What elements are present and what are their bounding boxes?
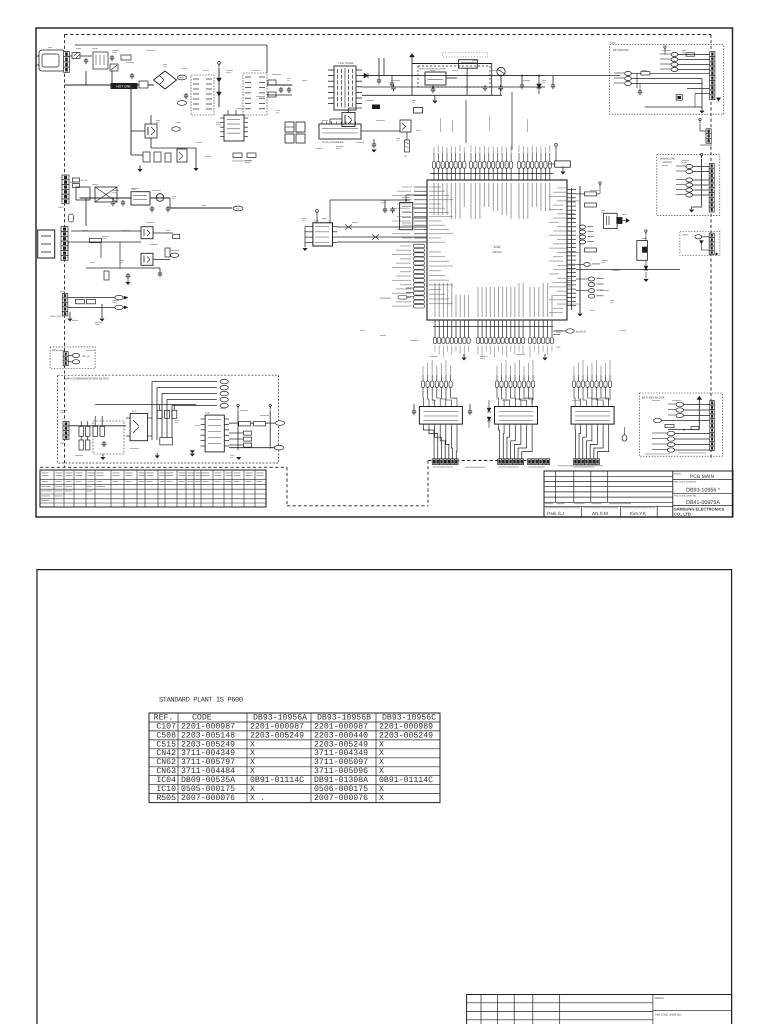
svg-text:BLOCK: BLOCK: [663, 161, 672, 164]
ground comm 4: [236, 457, 241, 460]
output connectors IC13: [574, 459, 578, 465]
svg-text:MODEL: MODEL: [674, 473, 683, 476]
opto-coupler PC101: [177, 149, 187, 162]
aux diode: [699, 241, 703, 245]
resistor R71: [585, 192, 597, 196]
wire secondary bus 2: [362, 86, 545, 88]
horizontal bus comm top: [95, 404, 196, 406]
line filter LF101: [93, 52, 108, 69]
transistor Q05: [156, 194, 164, 202]
svg-text:PBA CODE (DWG No): PBA CODE (DWG No): [674, 481, 696, 484]
download block dashed border: [657, 155, 720, 216]
resistor R42: [86, 426, 90, 436]
ground CN31 b: [99, 319, 104, 322]
svg-text:X: X: [379, 758, 384, 767]
vcc CN03: [699, 121, 701, 124]
sw ovals lower: [667, 431, 675, 435]
IC01 left pin labels inside: [429, 186, 441, 189]
IC01 right rail: [579, 186, 581, 313]
SMPS controller IC104: [319, 124, 361, 139]
ground comm 5: [190, 454, 195, 457]
buzzer oval: [553, 330, 566, 332]
output connectors IC11: [432, 459, 436, 465]
connector CN101 pins: [64, 52, 70, 57]
wire comm out: [229, 422, 239, 424]
relay box K101: [414, 108, 423, 114]
output cap C23: [151, 206, 153, 208]
sub power bottom rail: [362, 94, 502, 96]
output oval CTS: [220, 391, 228, 395]
revision history table: [40, 470, 266, 507]
svg-text:DB93-10956A: DB93-10956A: [253, 713, 307, 722]
filter cap C202: [391, 81, 393, 83]
svg-text:X: X: [250, 749, 255, 758]
wires IC11 outputs: [423, 427, 434, 460]
aux oval: [695, 235, 702, 239]
wires switch section: [68, 241, 141, 243]
ground symbol power: [139, 165, 141, 169]
varistor VA101: [110, 64, 118, 71]
capacitor C101: [85, 58, 87, 60]
svg-text:X: X: [250, 767, 255, 776]
resistor R25: [165, 248, 170, 257]
wire to key block: [545, 75, 620, 77]
svg-text:CODE: CODE: [192, 713, 212, 722]
vcc reset: [645, 232, 647, 235]
regulator IC103: [459, 60, 478, 68]
resistor R72: [585, 203, 597, 207]
pad P22: [173, 234, 180, 238]
MIC block dashed box: [50, 347, 95, 369]
cap C204: [500, 85, 502, 87]
svg-text:OSC: OSC: [556, 346, 561, 349]
svg-text:IC04: IC04: [156, 776, 176, 785]
title block signature dividers: [581, 506, 583, 517]
label bar AC warning: [111, 83, 138, 89]
fuse F101: [70, 55, 93, 57]
resistor R49: [172, 410, 177, 418]
wires IC13 outputs: [574, 427, 576, 460]
title block left grid: [555, 471, 557, 502]
title block frame: [544, 471, 733, 517]
ground reset: [645, 272, 647, 279]
title block rev labels row: [544, 505, 673, 507]
node HOT label: [178, 75, 187, 80]
svg-text:T101 TRANS: T101 TRANS: [338, 62, 354, 65]
revision table header scribbles: [42, 472, 49, 475]
small cap C103: [131, 73, 133, 75]
vcc eeprom: [316, 212, 318, 215]
feedback resistors cluster: [143, 152, 150, 162]
crystal X01 circuit: [604, 213, 618, 228]
oval pad right 6: [588, 277, 594, 281]
wire 5V rail: [80, 197, 132, 199]
oval OUT2: [170, 253, 178, 257]
svg-text:CN63: CN63: [156, 767, 176, 776]
svg-text:2203-005249: 2203-005249: [181, 740, 235, 749]
node HOT(DANGER) label: [178, 101, 187, 106]
component designator labels confetti: [48, 46, 52, 49]
wires IC11 inputs to IC: [422, 395, 424, 404]
output connectors IC12: [498, 459, 502, 465]
input ovals IC13: [573, 375, 575, 382]
MOSFET Q102: [342, 113, 355, 127]
wire AC to rectifier: [65, 84, 150, 86]
resistor RA01: [686, 53, 695, 56]
revision table left entries: [41, 485, 51, 488]
wire drop 2 to fan: [465, 100, 467, 143]
wire comm bus fan: [152, 382, 217, 440]
capacitor C102: [111, 55, 113, 57]
IC01 bottom pin stubs and ovals: [434, 320, 436, 338]
ground key: [701, 107, 703, 110]
input ovals IC11: [422, 375, 424, 382]
vcc key: [664, 48, 666, 51]
IC01 top pin labels inside: [434, 183, 435, 215]
ground bottom fan a: [463, 354, 465, 357]
svg-text:IC S01 KA1M0880B: IC S01 KA1M0880B: [322, 141, 344, 144]
svg-text:5V_IN: 5V_IN: [81, 179, 87, 182]
opto coupler IC41: [130, 414, 148, 441]
ground bottom fan b: [544, 354, 546, 357]
connector CN03: [706, 129, 711, 134]
reset circuit IC08: [637, 241, 648, 261]
tiny note above title block: [558, 464, 603, 467]
resistor R46: [100, 426, 104, 436]
cap group1 left: [413, 409, 415, 411]
sw junction dots: [683, 429, 685, 431]
transistor Q01 key: [676, 95, 682, 101]
filter box FB21: [76, 187, 90, 200]
oval pad right 8: [588, 289, 594, 293]
svg-text:IC01: IC01: [494, 245, 501, 249]
wire reset top: [405, 195, 407, 203]
ground comm 1: [102, 454, 104, 457]
svg-text:Park.S.J: Park.S.J: [547, 511, 564, 516]
sw oval mid: [654, 418, 662, 422]
svg-text:X: X: [379, 749, 384, 758]
svg-text:TH: TH: [404, 155, 407, 158]
svg-text:CN62: CN62: [156, 758, 176, 767]
electrolytic cap C211: [296, 122, 305, 132]
diode pad oval A: [115, 295, 123, 299]
connector CN31: [62, 293, 68, 298]
MOSFET Q101: [145, 124, 157, 138]
switch FET Q06: [141, 227, 153, 239]
label secondary: [232, 160, 252, 163]
IC01 top bus: [430, 173, 553, 175]
svg-text:X: X: [379, 785, 384, 794]
wires CN31: [68, 297, 115, 299]
svg-text:2007-000076: 2007-000076: [181, 794, 235, 803]
diode pad oval B: [115, 305, 123, 309]
svg-text:PCB MAIN: PCB MAIN: [690, 474, 715, 480]
wire primary loop: [130, 85, 132, 155]
sw vertical rail: [698, 400, 700, 430]
oval right of group3 bundle: [622, 435, 627, 441]
driver IC IC12: [495, 407, 538, 425]
left resistor group3: [487, 408, 491, 412]
ground CN31 a: [67, 319, 72, 322]
capacitor C213: [373, 142, 375, 144]
cap C01 key: [639, 89, 641, 91]
svg-text:DB09-00535A: DB09-00535A: [181, 776, 235, 785]
wires IC12 outputs: [499, 427, 500, 460]
sw label R82: [691, 427, 699, 430]
output oval GND41: [220, 403, 228, 407]
output oval TXD: [220, 379, 228, 383]
resistor R45: [93, 426, 97, 436]
svg-text:2201-000987: 2201-000987: [181, 722, 235, 731]
inductor L102: [138, 84, 154, 86]
resistor R44: [86, 440, 90, 450]
svg-text:DB41-00975A: DB41-00975A: [686, 500, 720, 506]
svg-text:R505: R505: [156, 794, 176, 803]
svg-text:BUZZER: BUZZER: [576, 331, 586, 334]
svg-text:C508: C508: [156, 731, 176, 740]
resistor R101: [121, 55, 131, 60]
labels right pads 3: [597, 290, 604, 291]
svg-text:MIC: MIC: [52, 349, 57, 352]
cap C44 box: [160, 438, 173, 445]
wires into PWM IC: [227, 110, 229, 115]
pad P43: [244, 443, 252, 447]
output oval COM1: [275, 421, 284, 426]
ground Q07: [127, 279, 129, 282]
svg-text:DB91-01308A: DB91-01308A: [314, 776, 368, 785]
input cap C22: [122, 200, 124, 202]
connector CN22: [61, 227, 68, 232]
bridge rectifier D101: [154, 71, 177, 89]
key upper ovals: [671, 52, 678, 56]
aux dot: [715, 253, 717, 255]
wires IC12 inputs to IC: [497, 395, 499, 404]
svg-text:PBA CODE (DWG No): PBA CODE (DWG No): [655, 1014, 681, 1017]
vcc top fan: [555, 146, 557, 149]
svg-text:X .: X .: [250, 794, 265, 803]
driver IC IC13: [571, 407, 614, 425]
ground comm 2: [156, 453, 158, 455]
oval KA label: [172, 127, 180, 131]
secondary rectifier pin array: [243, 73, 267, 115]
svg-text:X: X: [250, 758, 255, 767]
output oval 5V: [233, 206, 243, 211]
ground top fan: [562, 167, 564, 171]
diode stack D102: [218, 68, 220, 107]
svg-text:CN41: CN41: [60, 442, 66, 445]
input ovals IC12: [496, 375, 498, 382]
svg-text:KEY BLOCK: KEY BLOCK: [613, 48, 629, 52]
svg-text:X: X: [379, 767, 384, 776]
oval pad right 9: [588, 294, 594, 298]
wire drain: [150, 115, 152, 124]
cap C212 cluster: [285, 134, 294, 143]
main communication block dashed border: [58, 375, 279, 463]
sw connector CN05: [710, 401, 715, 406]
arrow key right: [717, 98, 721, 101]
EEPROM IC06: [313, 223, 333, 246]
switch FET Q07: [141, 253, 153, 265]
wires comm left: [69, 425, 79, 427]
transformer primary pin array: [191, 75, 214, 115]
wire vertical secondary: [378, 58, 380, 76]
connector CN41: [63, 422, 69, 427]
svg-text:3711-005097: 3711-005097: [314, 758, 368, 767]
resistor R111: [247, 153, 256, 158]
reset IC IC09: [400, 203, 413, 230]
signature names: [545, 506, 580, 509]
wire rail down: [85, 198, 87, 226]
sw resistor R81: [665, 425, 674, 428]
wires IC13 inputs to IC: [574, 395, 575, 404]
aux connector cells: [709, 233, 714, 237]
key connector CN01: [710, 52, 715, 57]
svg-text:CN31_OUT: CN31_OUT: [50, 315, 62, 318]
svg-text:2203-000440: 2203-000440: [314, 731, 368, 740]
sw ovals upper: [676, 402, 684, 406]
revision table row1 scribbles: [42, 480, 48, 483]
PWM controller IC101: [224, 115, 244, 141]
regulator IC05: [131, 192, 150, 205]
svg-text:2007-000076: 2007-000076: [314, 794, 368, 803]
svg-text:BATTERY BLOCK: BATTERY BLOCK: [642, 395, 665, 399]
IC01 left pin stubs upper: [414, 186, 427, 188]
svg-text:MIC_IN: MIC_IN: [82, 355, 90, 358]
IC01 top pin stubs and resistor ovals: [433, 168, 435, 180]
caps bottom switch: [127, 273, 129, 275]
vertical rail comm: [237, 410, 239, 450]
wire vcc drop to fan: [511, 92, 513, 150]
svg-text:2201-000987: 2201-000987: [314, 722, 368, 731]
oval pad right 1: [580, 225, 586, 229]
download connector CN02: [709, 164, 714, 169]
fan area vertical labels: [439, 118, 442, 132]
wire secondary bus 1: [362, 75, 545, 77]
svg-text:X: X: [250, 740, 255, 749]
ground eeprom: [302, 248, 307, 251]
svg-text:HOT GND: HOT GND: [116, 85, 132, 89]
resistor R41: [79, 426, 83, 436]
oval pad right 5: [584, 262, 590, 266]
wire eeprom top rail: [316, 200, 318, 212]
page 2 title block grid: [480, 995, 482, 1024]
page 2 sheet frame: [37, 570, 732, 1024]
vertical rail comm 2: [269, 410, 271, 448]
svg-text:C515: C515: [156, 740, 176, 749]
svg-text:IC10: IC10: [156, 785, 176, 794]
oval F21: [69, 214, 74, 222]
filter cap C201: [378, 78, 380, 80]
sub power label box 2: [443, 53, 488, 57]
resistor R50: [239, 422, 251, 426]
svg-text:C107: C107: [156, 722, 176, 731]
svg-text:DB93-10956C: DB93-10956C: [382, 713, 436, 722]
opto coupler PC102: [400, 120, 411, 132]
reset diode D71: [644, 266, 648, 270]
IC01 right pin ladder: [567, 189, 576, 191]
download ovals: [686, 164, 693, 168]
vcc download: [701, 156, 703, 159]
tiny label under connectors: [465, 466, 485, 469]
regulator IC102: [425, 72, 446, 85]
wires MIC: [68, 355, 72, 357]
pullup resistor R61: [337, 226, 427, 228]
IC01 right pin labels inside: [557, 187, 567, 190]
labels right pads: [588, 226, 594, 227]
svg-text:CN42: CN42: [156, 749, 176, 758]
oval pad right 3: [580, 235, 586, 239]
microcontroller IC01 body: [427, 180, 567, 320]
oval MIC+: [72, 353, 79, 357]
node junction dots secondary: [432, 86, 434, 88]
key input ovals: [625, 71, 632, 75]
resistor R51: [254, 422, 266, 426]
resistor R47: [157, 410, 162, 418]
transformer box T21: [95, 187, 117, 202]
oval pad right 4: [580, 240, 586, 244]
cap C41: [103, 441, 105, 443]
revision table grid: [53, 470, 55, 507]
output filter components: [268, 80, 276, 85]
svg-text:IC41: IC41: [132, 410, 137, 413]
svg-text:DB93-10956 *: DB93-10956 *: [686, 488, 721, 494]
zener diode ZD201: [537, 84, 542, 88]
resistor array RA21: [89, 238, 101, 242]
parts table frame: [149, 713, 440, 803]
wire eeprom left: [304, 227, 306, 248]
label CN03: [700, 145, 712, 146]
key block wires: [631, 72, 641, 74]
svg-text:2203-005249: 2203-005249: [379, 731, 433, 740]
svg-text:CN01: CN01: [610, 42, 616, 45]
key block dashed border: [610, 45, 724, 115]
ground sub power: [434, 95, 436, 100]
wire 12V branch: [71, 230, 141, 232]
thermistor TH101: [406, 132, 408, 140]
pad P41: [244, 431, 252, 435]
svg-text:CO., LTD: CO., LTD: [674, 512, 691, 517]
top rail wire: [75, 44, 267, 46]
cap group2 left: [469, 409, 471, 411]
cap C206: [552, 83, 554, 85]
labels right pads 2: [597, 278, 604, 279]
ground symbol power 2: [195, 164, 197, 168]
svg-text:REF.: REF.: [154, 713, 174, 722]
svg-text:2203-005249: 2203-005249: [250, 731, 304, 740]
ground right rail: [577, 314, 582, 317]
svg-text:0506-000175: 0506-000175: [314, 785, 368, 794]
snubber capacitor C104: [185, 93, 187, 95]
resistor R02: [641, 72, 650, 75]
wire reset to right: [576, 268, 680, 270]
svg-text:CN21: CN21: [58, 206, 64, 209]
resistor R43: [79, 440, 83, 450]
svg-text:Kim.Y.K: Kim.Y.K: [630, 511, 647, 516]
DC jack J21: [38, 230, 55, 258]
ground crystal: [626, 218, 630, 223]
resistor R32: [87, 299, 96, 303]
resistor R31: [75, 299, 84, 303]
connector CN32: [63, 352, 68, 357]
cap C203: [432, 87, 434, 89]
driver IC IC11: [419, 407, 462, 425]
svg-text:X: X: [379, 740, 384, 749]
svg-text:HOT: HOT: [179, 77, 185, 80]
svg-text:0505-000175: 0505-000175: [181, 785, 235, 794]
pad P42: [244, 437, 252, 441]
ground comm 3: [190, 450, 195, 453]
pull-up block IC07: [555, 161, 571, 167]
